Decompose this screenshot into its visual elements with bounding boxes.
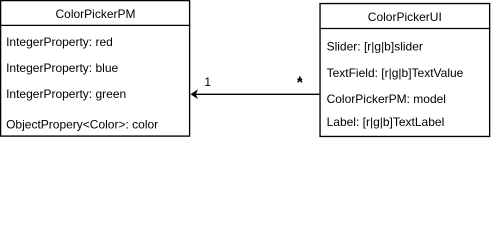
title separator ColorPickerUI	[319, 28, 490, 30]
association arrowhead pointing at ColorPickerPM	[191, 89, 199, 99]
svg-text:ColorPickerUI: ColorPickerUI	[368, 10, 442, 24]
svg-text:TextField: [r|g|b]TextValue: TextField: [r|g|b]TextValue	[327, 66, 464, 80]
svg-text:IntegerProperty: green: IntegerProperty: green	[6, 87, 126, 101]
title separator ColorPickerPM	[0, 24, 190, 26]
svg-text:Label: [r|g|b]TextLabel: Label: [r|g|b]TextLabel	[327, 115, 445, 129]
svg-text:1: 1	[204, 75, 211, 89]
class box ColorPickerPM	[1, 1, 190, 137]
svg-text:ObjectPropery<Color>: color: ObjectPropery<Color>: color	[6, 117, 158, 131]
multiplicity label *	[297, 76, 302, 82]
class box ColorPickerUI	[320, 4, 490, 137]
svg-text:IntegerProperty: red: IntegerProperty: red	[6, 35, 113, 49]
svg-text:ColorPickerPM: model: ColorPickerPM: model	[327, 92, 446, 106]
association line ColorPickerUI to ColorPickerPM	[193, 93, 320, 95]
svg-text:IntegerProperty: blue: IntegerProperty: blue	[6, 61, 118, 75]
svg-text:ColorPickerPM: ColorPickerPM	[55, 7, 135, 21]
svg-text:Slider: [r|g|b]slider: Slider: [r|g|b]slider	[327, 40, 423, 54]
